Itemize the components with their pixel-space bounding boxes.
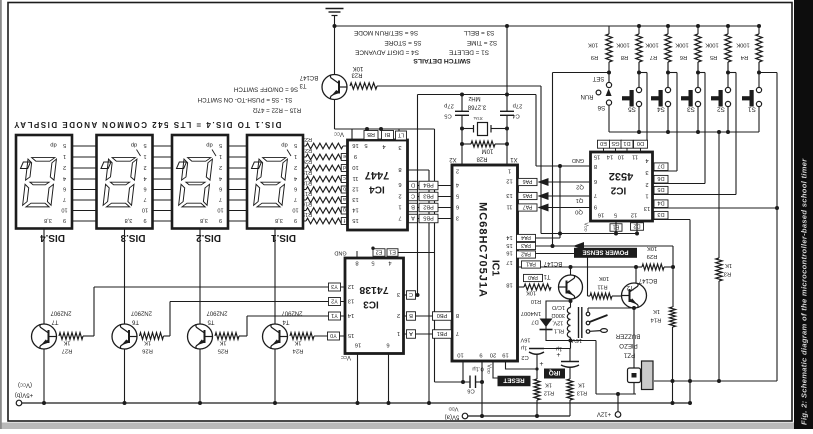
svg-text:PA1: PA1: [526, 261, 536, 267]
svg-text:3.2768: 3.2768: [467, 103, 486, 109]
wire R23 to S6 SET column: [377, 85, 541, 87]
transistor T1 BC147: [559, 275, 583, 299]
wire T7 emitter to Vcc rail: [43, 349, 45, 403]
capacitor C4 27p: [505, 93, 509, 97]
svg-text:IC1: IC1: [490, 260, 502, 277]
wire T4 emitter to Vcc rail: [274, 349, 276, 403]
wire T5 emitter to Vcc rail: [199, 349, 201, 403]
svg-text:5: 5: [614, 211, 617, 217]
svg-text:DIS.2: DIS.2: [196, 232, 221, 243]
svg-text:D1: D1: [623, 140, 630, 146]
svg-text:5: 5: [63, 142, 66, 148]
svg-text:1: 1: [645, 192, 648, 198]
svg-text:2N2907: 2N2907: [50, 309, 72, 315]
svg-text:1K: 1K: [578, 381, 585, 387]
segment letter boxes: [341, 154, 348, 161]
svg-text:PA4: PA4: [521, 234, 531, 240]
capacitor C2 1u 16V: [529, 348, 544, 350]
svg-text:5: 5: [143, 142, 146, 148]
wire vertical x417 to IC3 C: [417, 95, 419, 296]
svg-text:12: 12: [631, 211, 637, 217]
svg-text:15: 15: [506, 242, 512, 248]
svg-text:RB: RB: [367, 131, 375, 137]
wire display anode to T7: [43, 229, 45, 325]
svg-text:dp: dp: [131, 141, 137, 147]
wire S6 to switch bus: [608, 105, 610, 132]
black caption bar: [794, 0, 813, 429]
svg-text:+5V(b): +5V(b): [15, 391, 33, 397]
svg-text:E2: E2: [376, 248, 383, 254]
top ground rail: [335, 25, 760, 27]
diode D7 1N4007 branch: [546, 301, 571, 341]
svg-text:LT: LT: [397, 131, 404, 137]
wire display anode to T5: [199, 229, 201, 325]
svg-text:13: 13: [506, 192, 512, 198]
svg-text:300Ω: 300Ω: [551, 312, 565, 318]
svg-text:10K: 10K: [647, 245, 657, 251]
svg-text:2: 2: [294, 164, 297, 170]
svg-text:RUN: RUN: [581, 93, 594, 99]
+5V(b) Vcc terminal: [16, 400, 22, 406]
wire R14 to Vcc rail: [672, 327, 674, 403]
svg-text:+12V: +12V: [597, 410, 611, 416]
svg-text:PA6: PA6: [523, 178, 533, 184]
wire right margin bottom: [654, 380, 777, 382]
wire vertical x541 from R23: [540, 86, 542, 234]
svg-text:13: 13: [352, 196, 358, 202]
IRQ label: [544, 369, 565, 379]
svg-text:2: 2: [397, 312, 400, 318]
relay contacts: [586, 312, 590, 316]
svg-text:12: 12: [352, 185, 358, 191]
wire R29 to T2: [635, 267, 637, 284]
wire S1 tap to D4 and right margin: [759, 72, 777, 74]
svg-text:10: 10: [618, 153, 624, 159]
svg-text:BI: BI: [384, 131, 390, 137]
svg-text:10: 10: [142, 206, 148, 212]
wire IC1 pin9 column: [481, 361, 483, 416]
wire top rail to caps rail x507: [506, 26, 508, 95]
svg-text:18: 18: [506, 281, 512, 287]
svg-text:100K: 100K: [616, 41, 630, 47]
svg-text:1: 1: [398, 203, 401, 209]
svg-text:RL1: RL1: [554, 327, 564, 333]
svg-text:1: 1: [508, 167, 511, 173]
svg-text:S4 = DIGIT ADVANCE: S4 = DIGIT ADVANCE: [355, 49, 419, 56]
svg-text:E0: E0: [600, 140, 607, 146]
svg-text:D7: D7: [657, 163, 664, 169]
wire E1 D2 to bottom line: [615, 221, 617, 234]
svg-text:DIS.1: DIS.1: [271, 232, 296, 243]
wire T2 emitter to buzzer: [633, 308, 635, 368]
svg-text:R28: R28: [476, 155, 488, 161]
wire IC1 pin20 to RESET: [493, 361, 499, 378]
transistor T3 BC147: [322, 75, 347, 100]
svg-text:S1 = DELETE: S1 = DELETE: [449, 49, 489, 56]
svg-text:1: 1: [219, 153, 222, 159]
wires IC4 BCD to IC1 with D C B A boxes: [408, 185, 453, 187]
svg-text:17: 17: [506, 259, 512, 265]
svg-text:1: 1: [63, 153, 66, 159]
wire IC3 pin6 to Vcc rail: [388, 354, 390, 404]
wire T3 collector: [334, 26, 336, 75]
svg-text:16: 16: [598, 211, 604, 217]
wire S4 lower contact to bus: [667, 107, 669, 132]
svg-text:1: 1: [397, 330, 400, 336]
svg-text:DIS.1 TO DIS.4 = LTS 542 COMMO: DIS.1 TO DIS.4 = LTS 542 COMMON ANODE DI…: [13, 120, 282, 129]
resistor R14 1K: [670, 307, 676, 327]
transistor T6 2N2907: [112, 324, 137, 349]
svg-text:6: 6: [386, 341, 389, 347]
resistor R27 1K: [59, 333, 83, 340]
svg-text:R21: R21: [302, 147, 312, 153]
svg-text:10: 10: [217, 206, 223, 212]
svg-text:Y0: Y0: [330, 332, 337, 338]
svg-text:4: 4: [219, 175, 222, 181]
svg-text:R9: R9: [591, 54, 598, 60]
svg-text:14: 14: [347, 312, 354, 318]
svg-text:16: 16: [506, 249, 512, 255]
svg-text:S2 = TIME: S2 = TIME: [467, 39, 497, 46]
svg-text:6: 6: [143, 185, 146, 191]
IC2 D0 D1 GS E0 boxes: [598, 140, 610, 148]
svg-text:R16: R16: [302, 200, 312, 206]
wire relay bottom to +12V: [569, 339, 573, 343]
svg-text:R7: R7: [650, 54, 657, 60]
svg-text:7: 7: [594, 192, 597, 198]
switch S5 push-to-on: [637, 71, 641, 75]
svg-text:9: 9: [594, 203, 597, 209]
wire E1 to x434: [398, 252, 435, 254]
svg-text:13: 13: [348, 297, 354, 303]
switch S3 push-to-on: [696, 71, 700, 75]
wire S5 lower contact to bus: [638, 107, 640, 132]
svg-text:R12: R12: [544, 389, 554, 395]
svg-text:3,8: 3,8: [275, 217, 283, 223]
svg-text:SWITCH DETAILS: SWITCH DETAILS: [413, 57, 471, 64]
wire S5 tap to IC2 D0: [639, 72, 647, 74]
svg-text:4: 4: [63, 175, 66, 181]
resistor R13 1K: [567, 379, 573, 400]
svg-text:2: 2: [219, 164, 222, 170]
wire IC3 pin16 to Vcc rail: [357, 354, 359, 404]
svg-text:S1 - S5 = PUSH-TO- ON SWITCH: S1 - S5 = PUSH-TO- ON SWITCH: [198, 96, 293, 103]
svg-text:7: 7: [294, 196, 297, 202]
transistor T2 BC147: [622, 283, 647, 308]
wire gnd tap x560: [558, 164, 562, 168]
page bottom gray band: [0, 423, 813, 430]
svg-text:10: 10: [457, 351, 463, 357]
svg-text:1μ: 1μ: [556, 345, 562, 351]
svg-text:S6 = ON/OFF SWITCH: S6 = ON/OFF SWITCH: [234, 85, 298, 92]
wire vertical x434 LT to E1: [434, 129, 436, 382]
svg-text:6: 6: [63, 185, 66, 191]
svg-text:DIS.4: DIS.4: [40, 232, 65, 243]
svg-text:R25: R25: [218, 347, 229, 353]
svg-text:6: 6: [294, 185, 297, 191]
svg-text:1K: 1K: [219, 340, 226, 346]
svg-text:10K: 10K: [526, 289, 536, 295]
svg-text:D4: D4: [657, 200, 664, 206]
svg-text:b: b: [343, 186, 346, 192]
svg-text:Y2: Y2: [331, 297, 338, 303]
svg-text:D7: D7: [531, 318, 538, 324]
svg-text:MC68HC705J1A: MC68HC705J1A: [477, 202, 489, 298]
wire pin19 to R12 column: [506, 361, 538, 369]
resistor R8 100K: [637, 24, 641, 28]
svg-text:16: 16: [355, 341, 361, 347]
svg-text:C5: C5: [444, 112, 451, 118]
svg-text:16: 16: [352, 142, 358, 148]
piezo sounder element: [628, 368, 641, 383]
svg-text:g: g: [343, 207, 346, 213]
svg-text:IC3: IC3: [363, 298, 379, 309]
DIS.2 dp mark: [177, 162, 187, 169]
svg-text:C: C: [411, 192, 415, 198]
svg-text:2: 2: [63, 164, 66, 170]
switch S1 push-to-on: [757, 71, 761, 75]
ground: [326, 8, 344, 10]
resistor R9 10K: [608, 26, 610, 34]
svg-text:5: 5: [364, 142, 367, 148]
svg-text:PA3: PA3: [521, 242, 531, 248]
svg-text:3: 3: [456, 214, 459, 220]
svg-text:S6 = SET/RUN MODE: S6 = SET/RUN MODE: [354, 29, 418, 36]
svg-text:3,8: 3,8: [44, 217, 52, 223]
svg-text:9: 9: [143, 217, 146, 223]
svg-text:R24: R24: [292, 347, 303, 353]
wire IC3 B to IC1 PB0: [404, 315, 453, 317]
svg-text:74138: 74138: [359, 284, 388, 296]
svg-text:R17: R17: [302, 190, 312, 196]
svg-text:R19: R19: [302, 169, 312, 175]
switch S2 push-to-on: [726, 71, 730, 75]
wire S3 lower contact to bus: [697, 107, 699, 132]
svg-text:T3: T3: [299, 82, 307, 88]
relay RL1 coil: [567, 308, 570, 338]
wire vertical x429 to Vcc rail: [428, 170, 430, 403]
wires D0-E0 boxes to IC2 top: [603, 148, 605, 152]
DIS.3 dp mark: [101, 162, 111, 169]
svg-text:9: 9: [354, 153, 357, 159]
IC4 LT BI RB boxes: [364, 131, 378, 140]
svg-text:8: 8: [456, 312, 459, 318]
wire IC1 pin10 column: [462, 361, 464, 382]
svg-text:10K: 10K: [599, 275, 609, 281]
wire display anode to T6: [124, 229, 126, 325]
svg-text:14: 14: [506, 234, 513, 240]
svg-text:4: 4: [294, 175, 297, 181]
Vcc bottom rail: [22, 402, 690, 404]
svg-text:R15: R15: [302, 211, 312, 217]
resistor R10 10K: [518, 286, 525, 288]
switch bottom bus: [609, 131, 759, 133]
svg-text:100K: 100K: [675, 41, 689, 47]
display DIS.3 LTS542: [97, 135, 153, 229]
svg-text:D5: D5: [657, 186, 664, 192]
svg-text:X1: X1: [510, 156, 518, 162]
svg-text:T4: T4: [282, 318, 290, 324]
resistor R24 1K: [290, 333, 314, 340]
svg-text:10: 10: [61, 206, 67, 212]
svg-text:C4: C4: [512, 112, 520, 118]
svg-text:R29: R29: [647, 253, 658, 259]
relay core lines: [578, 307, 580, 338]
transistor T5 2N2907: [188, 324, 213, 349]
wire T7 base to IC3: [83, 335, 94, 337]
wire IC4 top loop from T3 emitter: [335, 128, 435, 130]
svg-text:IC2: IC2: [610, 184, 626, 195]
svg-text:15: 15: [352, 217, 358, 223]
svg-text:19: 19: [502, 351, 508, 357]
wire D3 column to Vcc rail: [689, 220, 691, 404]
svg-text:4: 4: [143, 175, 146, 181]
wire y233 line: [541, 233, 637, 235]
svg-text:6: 6: [594, 178, 597, 184]
POWER SENSE label: [574, 248, 637, 258]
svg-text:R10: R10: [531, 298, 541, 304]
capacitor C3 1u 16V: [569, 349, 571, 362]
svg-text:1: 1: [143, 153, 146, 159]
svg-text:2: 2: [143, 164, 146, 170]
capacitor C6 0.1u: [435, 381, 471, 383]
wire IC3 C output: [404, 294, 418, 296]
svg-text:4532: 4532: [609, 170, 633, 182]
wire IC4 pin8: [408, 169, 430, 171]
svg-text:B: B: [409, 312, 413, 318]
svg-text:9: 9: [479, 351, 482, 357]
wire T1 emitter to relay: [569, 299, 573, 303]
svg-text:7447: 7447: [365, 169, 389, 181]
svg-text:20: 20: [490, 351, 496, 357]
svg-text:10: 10: [352, 164, 358, 170]
RESET label: [498, 376, 531, 387]
svg-text:10K: 10K: [588, 41, 598, 47]
svg-text:S5 = STORE: S5 = STORE: [385, 39, 422, 46]
svg-text:T1: T1: [543, 273, 551, 279]
svg-text:7: 7: [456, 330, 459, 336]
svg-text:S5: S5: [628, 106, 636, 113]
DIS.4 dp mark: [21, 162, 31, 169]
svg-text:3,8: 3,8: [200, 217, 208, 223]
wire caps rail to IC2 gnd: [535, 95, 537, 167]
resistor R7 100K: [666, 24, 670, 28]
svg-text:e: e: [343, 153, 346, 159]
resistor R12 1K: [534, 379, 540, 400]
svg-text:3: 3: [645, 169, 648, 175]
svg-text:5: 5: [371, 259, 374, 265]
svg-text:1K: 1K: [63, 340, 70, 346]
svg-text:dp: dp: [281, 141, 287, 147]
svg-text:Y3: Y3: [331, 283, 338, 289]
svg-text:8: 8: [398, 166, 401, 172]
svg-text:R20: R20: [302, 158, 312, 164]
svg-text:T5: T5: [207, 318, 215, 324]
svg-text:1K: 1K: [725, 262, 732, 268]
resistor R25 1K: [215, 333, 239, 340]
svg-text:T2: T2: [626, 284, 634, 290]
svg-text:12V,: 12V,: [552, 320, 563, 326]
svg-text:PB1: PB1: [437, 330, 448, 336]
svg-text:PA7: PA7: [523, 204, 533, 210]
svg-text:PIEZO: PIEZO: [619, 342, 638, 349]
svg-text:16V: 16V: [520, 336, 530, 342]
svg-text:5: 5: [219, 142, 222, 148]
svg-text:PA2: PA2: [521, 251, 531, 257]
svg-text:10K: 10K: [353, 65, 364, 71]
svg-text:A: A: [411, 214, 415, 220]
svg-text:T6: T6: [131, 318, 139, 324]
IC1 PA4 wire: [518, 237, 561, 239]
wire relay contact to T2 emitter: [587, 308, 589, 312]
svg-text:DIS.3: DIS.3: [120, 232, 145, 243]
svg-text:1N4007: 1N4007: [521, 310, 541, 316]
svg-text:3: 3: [398, 144, 401, 150]
wire buzzer bottom: [633, 383, 635, 395]
resistor R23 10K: [350, 83, 377, 89]
svg-text:Fig. 2: Schematic diagram of t: Fig. 2: Schematic diagram of the microco…: [800, 158, 809, 425]
resistor R6 100K: [696, 24, 700, 28]
svg-text:16V: 16V: [572, 337, 582, 343]
svg-text:7: 7: [398, 214, 401, 220]
transistor T7 2N2907: [32, 324, 57, 349]
IC2 D7-D3 wires and boxes: [653, 170, 678, 172]
wire x673 down to R14: [672, 246, 674, 307]
wire T6 base to IC3: [164, 335, 171, 337]
wire S4 tap to D7: [668, 72, 677, 74]
svg-text:dp: dp: [50, 141, 56, 147]
svg-text:PB2: PB2: [423, 203, 434, 209]
resistor R4 100K: [757, 24, 761, 28]
svg-text:12: 12: [506, 177, 512, 183]
svg-text:dp: dp: [206, 141, 212, 147]
svg-text:IRQ: IRQ: [549, 369, 560, 376]
IC1 PA3 power sense wire: [518, 245, 674, 247]
svg-text:5V(a): 5V(a): [445, 413, 460, 419]
buzzer PZ1: [642, 361, 654, 390]
svg-text:RESET: RESET: [503, 377, 524, 384]
svg-text:a: a: [343, 196, 346, 202]
svg-text:S6: S6: [597, 104, 605, 111]
svg-text:PB3: PB3: [423, 192, 434, 198]
svg-text:PB0: PB0: [437, 312, 448, 318]
IC1 MC68HC705J1A: [452, 165, 518, 361]
svg-text:BC147: BC147: [543, 260, 562, 266]
wire S1 lower contact to bus: [758, 107, 760, 132]
resistor R3 1K: [718, 132, 720, 258]
svg-text:C6: C6: [467, 387, 474, 393]
svg-text:C: C: [409, 291, 413, 297]
svg-text:13: 13: [644, 205, 650, 211]
wire vertical x552 from SET line: [552, 73, 554, 247]
display DIS.1 LTS542: [247, 135, 303, 229]
svg-text:9: 9: [294, 217, 297, 223]
svg-text:2N2907: 2N2907: [130, 309, 152, 315]
IC4 7447: [348, 140, 408, 230]
svg-text:6: 6: [398, 181, 401, 187]
resistor R11 10K: [590, 293, 612, 299]
resistor R29 10K: [642, 264, 664, 270]
wire +12V distribution: [596, 393, 636, 395]
svg-text:8: 8: [355, 259, 358, 265]
wire caps ground rail: [418, 94, 537, 96]
svg-text:Q0: Q0: [575, 208, 583, 214]
resistors R22-R15 47ohm: [303, 145, 306, 147]
wire S2 lower contact to bus: [727, 107, 729, 132]
capacitor C5 27p: [460, 93, 464, 97]
svg-text:BC147: BC147: [299, 74, 318, 80]
svg-text:GND: GND: [572, 157, 584, 163]
